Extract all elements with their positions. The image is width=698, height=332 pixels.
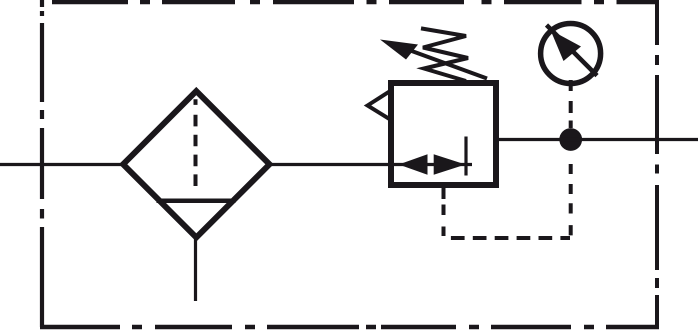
- wire: regulator outlet line: [496, 138, 698, 141]
- filter drain line: [194, 237, 197, 301]
- regulator spring: [421, 28, 468, 81]
- pilot line horizontal (dashed): [451, 236, 570, 240]
- gauge sensing line (dashed): [569, 80, 573, 128]
- regulator flow arrow right head: [434, 154, 466, 174]
- enclosure border bottom (dash-dot): [40, 325, 659, 329]
- gauge needle head: [551, 30, 582, 61]
- enclosure border top (dash-dot): [52, 0, 659, 4]
- enclosure border right (dash-dot): [655, 2, 659, 327]
- regulator flow arrow left head: [399, 154, 428, 174]
- pilot line down from regulator (dashed): [442, 188, 446, 236]
- pilot line up to junction (dashed): [569, 164, 573, 235]
- filter F1 bowl (diamond): [123, 91, 269, 237]
- filter F1 element (dashed centre line): [194, 99, 198, 186]
- wire: filter to regulator: [268, 163, 392, 166]
- adjustment arrow head: [380, 40, 418, 60]
- pressure gauge G1 dial: [541, 24, 601, 84]
- node: outlet junction: [559, 128, 582, 151]
- regulator relief vent triangle: [368, 91, 392, 121]
- adjustment arrow shaft: [409, 50, 487, 79]
- enclosure border left (dash-dot): [40, 0, 44, 327]
- wire: inlet line (left, into filter): [0, 163, 125, 166]
- regulator seat bar: [464, 137, 467, 176]
- filter F1 separator line: [157, 198, 236, 203]
- gauge needle shaft: [547, 25, 598, 76]
- regulator R1 body: [391, 83, 496, 185]
- regulator flow path line: [392, 163, 472, 166]
